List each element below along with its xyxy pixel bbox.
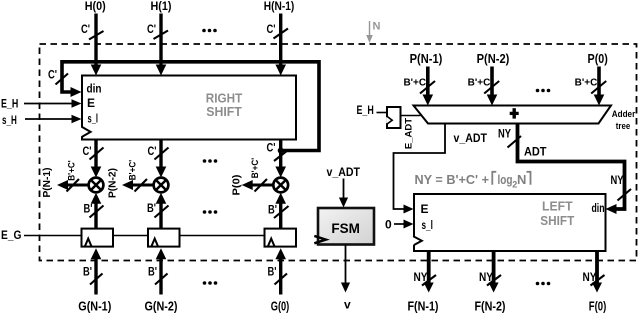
- multiplier column 3: [273, 178, 288, 193]
- svg-text:B'+C': B'+C': [575, 78, 600, 89]
- bus-width slash G(N-2): [155, 274, 168, 285]
- value label NY on ADT bus: [498, 128, 511, 140]
- svg-text:C': C': [147, 24, 156, 36]
- adder tree trapezoid U: +: [414, 106, 612, 124]
- wire register to multiplier column 1 (B' bus up): [91, 193, 102, 229]
- svg-text:SHIFT: SHIFT: [206, 104, 242, 119]
- svg-text:B': B': [268, 204, 277, 216]
- wire register to multiplier column 3 (B' bus up): [275, 193, 286, 229]
- ellipsis between H(1) and H(N-1): [202, 29, 217, 33]
- pin label E of RIGHT SHIFT: [87, 96, 95, 110]
- pin label s_l of RIGHT SHIFT: [88, 112, 99, 126]
- svg-text:log: log: [498, 172, 513, 187]
- pin label din of RIGHT SHIFT: [87, 84, 102, 96]
- net label P(0) rotated: [231, 175, 243, 196]
- node H(N-1) label: [264, 0, 295, 13]
- wire F(N-1) output bus from LEFT SHIFT: [424, 251, 434, 293]
- svg-text:v_ADT: v_ADT: [327, 165, 361, 179]
- net label v_ADT (at adder tree): [454, 131, 488, 145]
- ellipsis between F(N-2) and F(0): [536, 282, 551, 286]
- node v label: [344, 297, 351, 311]
- bus-width slash column 2 B': [155, 206, 169, 218]
- svg-text:tree: tree: [616, 121, 631, 132]
- svg-text:G(0): G(0): [271, 299, 290, 313]
- bus-width slash on H(N-1) bus: [274, 29, 289, 39]
- net label P(N-2) (adder tree input): [477, 52, 510, 66]
- svg-text:s_l: s_l: [88, 112, 99, 126]
- node E_G label: [1, 228, 22, 242]
- wire FSM output v: [341, 245, 350, 293]
- svg-text:P(0): P(0): [588, 52, 608, 66]
- bus-width slash F(N-1): [422, 275, 436, 286]
- bus-width slash ADT bus: [508, 136, 522, 148]
- svg-text:B'+C': B'+C': [468, 78, 493, 89]
- node E_H label (right, enable of adder tree pipeline register): [357, 103, 374, 117]
- bus-width slash on H(0) bus: [89, 31, 104, 40]
- node F(N-2) label: [475, 300, 506, 314]
- wire product output P(N-1) arrow left: [57, 180, 88, 190]
- wire P(N-2) bus into adder tree: [487, 67, 498, 106]
- value label C' on H(N-1) bus: [267, 24, 276, 36]
- wire register to multiplier column 2 (B' bus up): [156, 193, 167, 229]
- register E_ADT pipeline flip-flop: [386, 107, 400, 128]
- value label B'+C' rotated column 3: [250, 158, 261, 179]
- svg-text:SHIFT: SHIFT: [540, 214, 574, 228]
- bus-width slash P(0): [591, 81, 606, 94]
- wire thick feedback loop from node below RIGHT SHIFT to din input: [62, 62, 319, 151]
- svg-text:F(N-1): F(N-1): [408, 300, 439, 314]
- bus-width slash G(N-1): [90, 274, 103, 285]
- bus-width slash column 1 C': [90, 148, 104, 160]
- value label B'+C' on P(N-2) bus: [468, 78, 493, 89]
- svg-text:s_l: s_l: [422, 218, 433, 232]
- svg-text:C': C': [148, 146, 157, 158]
- svg-text:P(0): P(0): [231, 175, 243, 196]
- svg-text:LEFT: LEFT: [542, 200, 573, 214]
- bus-width slash on P(N-1) output: [67, 179, 80, 192]
- wire s_H to s_l input: [25, 115, 82, 124]
- wire F(N-2) output bus from LEFT SHIFT: [489, 251, 499, 293]
- svg-text:B': B': [83, 267, 92, 279]
- wire ADT result bus from adder tree to LEFT SHIFT din: [518, 124, 625, 215]
- wire register output to adder tree edge: [401, 115, 421, 117]
- node v_ADT label (FSM input): [327, 165, 361, 179]
- wire H(0) input bus: [91, 14, 102, 76]
- gray input-count marker N with arrow at dashed boundary: [366, 21, 380, 44]
- value label B' column 1: [84, 203, 93, 215]
- svg-text:din: din: [592, 203, 605, 215]
- value label B' column 3: [268, 204, 277, 216]
- value label B'+C' on P(N-1) bus: [403, 78, 428, 89]
- svg-text:B': B': [148, 267, 157, 279]
- svg-text:E_H: E_H: [357, 103, 374, 117]
- clock input triangle of LEFT SHIFT: [413, 237, 422, 245]
- net label P(N-1) rotated: [41, 168, 53, 198]
- value label C' column 1: [83, 146, 92, 158]
- wire product output P(0) arrow left: [242, 180, 273, 190]
- node G(N-2) label: [145, 299, 178, 313]
- svg-text:C': C': [81, 24, 90, 36]
- node F(0) label: [589, 300, 607, 314]
- wire P(0) bus into adder tree: [594, 67, 605, 106]
- ellipsis between P(N-2) and P(0): [536, 89, 551, 93]
- formula NY = B'+C' + ceil(log2 N): [415, 172, 531, 190]
- svg-text:G(N-1): G(N-1): [78, 299, 111, 313]
- node G(0) label: [271, 299, 290, 313]
- value label B'+C' on P(0) bus: [575, 78, 600, 89]
- svg-text:NY: NY: [611, 175, 624, 187]
- svg-text:E: E: [421, 202, 429, 216]
- value label B' on G(0) bus: [268, 267, 277, 279]
- value label B' on G(N-2) bus: [148, 267, 157, 279]
- wire F(0) output bus from LEFT SHIFT: [592, 251, 602, 293]
- wire v_ADT from adder tree down to LEFT SHIFT E input: [394, 124, 446, 214]
- svg-text:din: din: [87, 84, 102, 96]
- ellipsis between column 2 and 3 (G row): [203, 281, 218, 285]
- label Adder tree: [612, 109, 636, 132]
- value label NY near din: [611, 175, 624, 187]
- value label NY on F(N-1) bus: [414, 272, 428, 284]
- wire product output P(N-2) arrow left: [122, 180, 153, 190]
- block RIGHT SHIFT register: [82, 76, 296, 140]
- bus-width slash column 1 B': [90, 206, 104, 218]
- bus-width slash on P(N-2) output: [135, 179, 148, 192]
- net label P(0) (adder tree input): [588, 52, 608, 66]
- svg-text:H(0): H(0): [85, 0, 106, 13]
- bus-width slash F(N-2): [487, 275, 501, 286]
- svg-text:ADT: ADT: [524, 144, 547, 158]
- pin label s_l of LEFT SHIFT: [422, 218, 433, 232]
- svg-text:B': B': [268, 267, 277, 279]
- svg-text:E_H: E_H: [1, 97, 18, 111]
- bus-width slash G(0): [275, 274, 288, 285]
- pin label din of LEFT SHIFT: [592, 203, 605, 215]
- bus-width slash on H(1) bus: [154, 31, 169, 40]
- svg-text:0: 0: [385, 217, 392, 231]
- svg-text:N: N: [373, 21, 381, 33]
- svg-text:B'+C': B'+C': [403, 78, 428, 89]
- net label P(N-2) rotated: [107, 168, 119, 198]
- svg-text:B'+C': B'+C': [128, 160, 139, 181]
- svg-text:NY: NY: [498, 128, 511, 140]
- svg-text:C': C': [48, 69, 57, 81]
- node F(N-1) label: [408, 300, 439, 314]
- svg-text:E: E: [87, 96, 95, 110]
- value label C' on feedback bus: [48, 69, 57, 81]
- svg-text:B'+C': B'+C': [250, 158, 261, 179]
- wire G(N-2) input bus up into register: [156, 248, 167, 294]
- svg-text:C': C': [267, 24, 276, 36]
- net label ADT: [524, 144, 547, 158]
- node H(0) label: [85, 0, 106, 13]
- svg-text:P(N-2): P(N-2): [477, 52, 510, 66]
- svg-text:F(N-2): F(N-2): [475, 300, 506, 314]
- constant 0 label: [385, 217, 392, 231]
- svg-text:NY = B'+C' +: NY = B'+C' +: [415, 172, 490, 187]
- svg-text:H(1): H(1): [151, 0, 172, 13]
- value label B' column 2: [147, 203, 156, 215]
- svg-text:G(N-2): G(N-2): [145, 299, 178, 313]
- svg-text:C': C': [267, 142, 276, 154]
- value label NY on F(N-2) bus: [479, 272, 493, 284]
- node G(N-1) label: [78, 299, 111, 313]
- value label B'+C' rotated column 1: [67, 160, 78, 181]
- bus-width slash near din: [618, 189, 632, 201]
- wire P(N-1) bus into adder tree: [423, 67, 434, 106]
- svg-text:N: N: [517, 172, 526, 187]
- ellipsis between column 2 and 3 (C' row): [203, 159, 218, 163]
- pin label E of LEFT SHIFT: [421, 202, 429, 216]
- bus-width slash column 2 C': [155, 148, 169, 160]
- register (input latch) column 1: [82, 229, 114, 247]
- value label C' on H(0) bus: [81, 24, 90, 36]
- wire v_ADT into FSM: [339, 179, 348, 208]
- svg-text:B': B': [147, 203, 156, 215]
- wire from RIGHT SHIFT output column 2 down to multiplier: [156, 140, 167, 178]
- value label C' column 3: [267, 142, 276, 154]
- bus-width slash F(0): [591, 275, 605, 286]
- wire H(1) input bus: [156, 14, 167, 76]
- wire E_H to E input: [24, 99, 82, 108]
- bus-width slash on P(0) output: [255, 179, 268, 192]
- register (input latch) column 3: [265, 229, 297, 247]
- svg-text:Adder: Adder: [612, 109, 636, 120]
- value label NY on F(0) bus: [583, 272, 597, 284]
- multiplier column 1: [89, 178, 104, 193]
- dashed boundary box of hardware module: [40, 44, 637, 261]
- wire from RIGHT SHIFT output column 1 down to multiplier: [91, 140, 102, 178]
- bus-width slash column 3 B': [274, 206, 289, 218]
- ellipsis between column 2 and 3 (B' row): [203, 210, 218, 214]
- svg-text:P(N-1): P(N-1): [41, 168, 53, 198]
- wire H(N-1) input bus: [275, 14, 286, 76]
- wire constant 0 to s_l: [394, 220, 414, 229]
- wire E_G enable line to registers: [24, 235, 265, 237]
- value label B'+C' rotated column 2: [128, 160, 139, 181]
- value label C' on H(1) bus: [147, 24, 156, 36]
- bus-width slash P(N-1): [420, 81, 435, 94]
- block FSM controller: [314, 208, 374, 245]
- block LEFT SHIFT register: [414, 194, 606, 251]
- net label E_ADT rotated: [404, 118, 415, 149]
- wire from RIGHT SHIFT output column 3 down to multiplier: [275, 140, 286, 178]
- bus-width slash P(N-2): [484, 81, 499, 94]
- svg-text:P(N-1): P(N-1): [410, 52, 443, 66]
- svg-text:B': B': [84, 203, 93, 215]
- svg-text:F(0): F(0): [589, 300, 607, 314]
- register (input latch) column 2: [148, 229, 180, 247]
- svg-text:E_ADT: E_ADT: [404, 118, 415, 149]
- svg-text:H(N-1): H(N-1): [264, 0, 295, 13]
- bus-width slash column 3 C': [274, 150, 288, 161]
- node H(1) label: [151, 0, 172, 13]
- svg-text:v_ADT: v_ADT: [454, 131, 488, 145]
- node E_H label (left): [1, 97, 18, 111]
- svg-text:v: v: [344, 297, 351, 311]
- svg-text:C': C': [83, 146, 92, 158]
- junction dot column 3 feedback tap: [278, 148, 284, 154]
- node s_H label: [2, 113, 17, 127]
- multiplier column 2: [154, 178, 169, 193]
- value label C' column 2: [148, 146, 157, 158]
- svg-text:E_G: E_G: [1, 228, 22, 242]
- svg-text:P(N-2): P(N-2): [107, 168, 119, 198]
- bus-width slash on feedback bus: [56, 74, 69, 85]
- svg-text:s_H: s_H: [2, 113, 17, 127]
- svg-text:B'+C': B'+C': [67, 160, 78, 181]
- clock input triangle of RIGHT SHIFT: [81, 127, 91, 137]
- wire E_H into pipeline register: [377, 112, 388, 114]
- wire G(0) input bus up into register: [275, 248, 286, 294]
- net label P(N-1) (adder tree input): [410, 52, 443, 66]
- wire G(N-1) input bus up into register: [91, 248, 102, 294]
- value label B' on G(N-1) bus: [83, 267, 92, 279]
- svg-text:FSM: FSM: [331, 221, 360, 236]
